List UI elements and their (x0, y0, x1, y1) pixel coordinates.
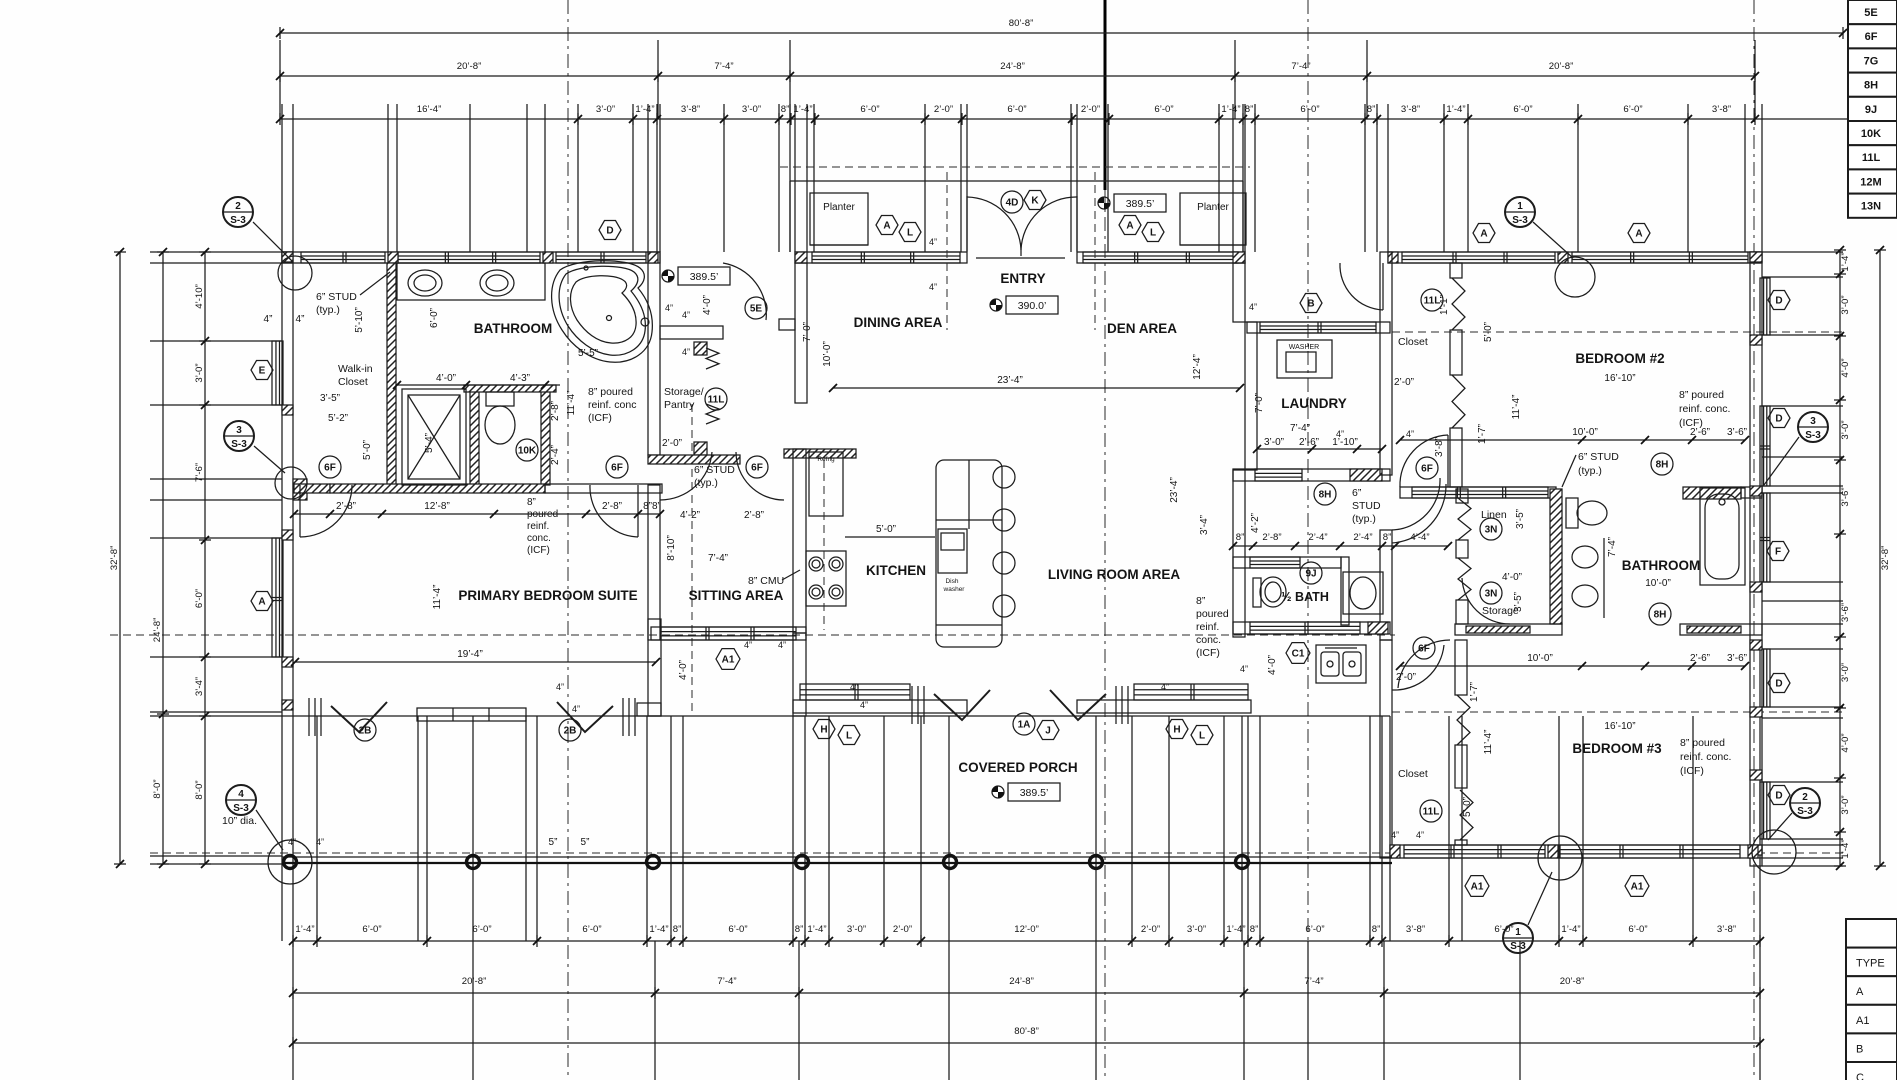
svg-text:SITTING AREA: SITTING AREA (689, 588, 784, 603)
island chairs (993, 466, 1015, 488)
svg-text:4”: 4” (556, 682, 564, 692)
door hall upper 6F (1392, 484, 1446, 543)
svg-text:12’-4”: 12’-4” (1192, 354, 1203, 380)
svg-text:5’-0”: 5’-0” (1462, 797, 1473, 817)
svg-text:4”: 4” (1240, 664, 1248, 674)
svg-text:6F: 6F (751, 463, 763, 474)
svg-text:conc.: conc. (1196, 634, 1221, 646)
right dimension column 32-8 (1879, 250, 1881, 866)
wall right exterior (1750, 252, 1762, 866)
svg-text:4’-2”: 4’-2” (1250, 513, 1261, 533)
door bedroom2 (1447, 435, 1449, 487)
svg-text:6’-0”: 6’-0” (1300, 104, 1319, 115)
svg-text:S-3: S-3 (230, 215, 246, 226)
kitchen counter dashed (823, 460, 825, 630)
svg-text:(ICF): (ICF) (1680, 765, 1704, 777)
wall bed3 south (1390, 845, 1762, 858)
half bath sink (1343, 572, 1383, 614)
door storage bifold (706, 348, 719, 369)
door bathroom2 (1462, 578, 1510, 624)
svg-text:6’-0”: 6’-0” (1305, 924, 1324, 935)
svg-text:12’-0”: 12’-0” (1014, 924, 1039, 935)
wall bath-left south (294, 484, 330, 493)
svg-text:BEDROOM #3: BEDROOM #3 (1572, 741, 1662, 756)
svg-text:8”: 8” (1236, 532, 1245, 543)
porch north edge line (293, 715, 1390, 717)
svg-text:A1: A1 (722, 655, 735, 666)
range (806, 551, 846, 606)
svg-text:20’-8”: 20’-8” (1560, 976, 1585, 987)
shear wall marks porch (308, 698, 310, 736)
svg-text:20’-8”: 20’-8” (1549, 61, 1574, 72)
wall laundry bottom (1233, 469, 1390, 481)
svg-text:H: H (1173, 725, 1180, 736)
svg-text:D: D (1775, 296, 1782, 307)
svg-text:4’-0”: 4’-0” (1840, 358, 1851, 377)
porch south edge (282, 856, 1392, 858)
svg-text:11’-4”: 11’-4” (1483, 730, 1494, 755)
svg-text:1’-4”: 1’-4” (807, 924, 826, 935)
svg-text:8H: 8H (1864, 80, 1878, 92)
svg-text:A: A (1856, 986, 1864, 998)
svg-text:3’-8”: 3’-8” (1712, 104, 1731, 115)
svg-text:reinf. conc.: reinf. conc. (1680, 751, 1731, 763)
bifold bed2 closet (1452, 278, 1465, 330)
svg-text:6’-0”: 6’-0” (194, 589, 205, 608)
svg-text:5’-0”: 5’-0” (1483, 322, 1494, 342)
svg-text:1’-7”: 1’-7” (1469, 682, 1480, 702)
svg-text:L: L (907, 228, 913, 239)
svg-text:3N: 3N (1485, 525, 1498, 536)
porch wall stub (417, 708, 526, 721)
wall bathroom2 south right (1680, 624, 1762, 635)
svg-text:Refrig: Refrig (817, 456, 835, 463)
svg-text:12M: 12M (1860, 176, 1881, 188)
planter boxes (810, 193, 868, 245)
elevation markers (990, 299, 1002, 311)
svg-text:6’-0”: 6’-0” (472, 924, 491, 935)
section cut thick line (1104, 0, 1107, 190)
svg-text:4’-0”: 4’-0” (678, 660, 689, 680)
door hall 6F arc (660, 452, 712, 500)
svg-text:7’-4”: 7’-4” (714, 61, 733, 72)
svg-text:D: D (1775, 414, 1782, 425)
svg-text:7’-4”: 7’-4” (1607, 537, 1618, 557)
svg-text:Planter: Planter (823, 202, 855, 213)
svg-text:8”: 8” (673, 924, 682, 935)
top dimension row 3 extension (1755, 118, 1880, 120)
svg-text:10’-0”: 10’-0” (822, 341, 833, 367)
svg-text:7’-0”: 7’-0” (1254, 393, 1265, 413)
wall bed2 closet east (1450, 263, 1462, 278)
horizontal margin lines right (1762, 251, 1843, 253)
svg-text:1’-4”: 1’-4” (1226, 924, 1245, 935)
horizontal dashed centerlines (150, 852, 1390, 854)
svg-text:E: E (259, 366, 266, 377)
svg-text:PRIMARY BEDROOM SUITE: PRIMARY BEDROOM SUITE (458, 588, 637, 603)
svg-text:16’-4”: 16’-4” (417, 104, 442, 115)
svg-text:4’-2”: 4’-2” (680, 510, 700, 521)
svg-text:4”: 4” (1336, 429, 1344, 439)
svg-text:BEDROOM #2: BEDROOM #2 (1575, 351, 1664, 366)
svg-text:5E: 5E (750, 304, 763, 315)
bathroom counter with two sinks (397, 263, 545, 300)
svg-text:6F: 6F (611, 463, 623, 474)
wall entry block top left segment (795, 252, 967, 263)
door bedroom3 (1392, 645, 1444, 690)
right dimension column details (1839, 250, 1841, 866)
svg-text:F: F (1775, 547, 1781, 558)
svg-text:D: D (1775, 791, 1782, 802)
svg-text:8”: 8” (795, 924, 804, 935)
svg-text:4”: 4” (929, 282, 937, 292)
svg-text:4”: 4” (860, 700, 868, 710)
svg-text:6’-0”: 6’-0” (362, 924, 381, 935)
svg-text:389.5’: 389.5’ (690, 271, 719, 283)
shower (402, 389, 466, 485)
svg-text:S-3: S-3 (233, 803, 249, 814)
svg-text:6’-0”: 6’-0” (728, 924, 747, 935)
svg-text:reinf.: reinf. (527, 521, 549, 532)
refrigerator (809, 452, 843, 516)
svg-text:3’-8”: 3’-8” (1717, 924, 1736, 935)
svg-text:6”: 6” (1352, 487, 1362, 499)
svg-text:5”: 5” (549, 837, 558, 848)
svg-text:Planter: Planter (1197, 202, 1229, 213)
svg-text:1: 1 (1515, 927, 1521, 938)
svg-text:3’-5”: 3’-5” (1515, 509, 1526, 529)
bottom dimension row 2 (293, 992, 1760, 994)
svg-text:8”: 8” (1383, 532, 1392, 543)
svg-text:10’-0”: 10’-0” (1527, 653, 1553, 664)
svg-text:10’-0”: 10’-0” (1645, 578, 1671, 589)
svg-text:11L: 11L (1862, 152, 1881, 164)
svg-text:6’-0”: 6’-0” (429, 308, 440, 328)
svg-text:2’-8”: 2’-8” (1262, 532, 1281, 543)
hall dim row (1233, 545, 1448, 547)
svg-text:A: A (883, 221, 890, 232)
svg-text:7’-4”: 7’-4” (1291, 61, 1310, 72)
wall dining west (795, 263, 807, 403)
svg-text:BATHROOM: BATHROOM (1622, 558, 1701, 573)
wall bathroom east / sitting west (648, 252, 660, 455)
svg-text:A1: A1 (1856, 1015, 1869, 1027)
svg-text:S-3: S-3 (1805, 430, 1821, 441)
marker hexagons (1024, 191, 1046, 210)
svg-text:12’-8”: 12’-8” (424, 501, 450, 512)
detail circles (278, 256, 312, 290)
grid extension lines vertical top margin (281, 104, 283, 252)
svg-text:BATHROOM: BATHROOM (474, 321, 553, 336)
svg-text:B: B (1307, 299, 1314, 310)
svg-text:(typ.): (typ.) (694, 477, 718, 489)
svg-text:8”: 8” (1245, 104, 1254, 115)
bifold bed3 closet (1457, 695, 1470, 745)
wall storage bottom (648, 455, 740, 464)
svg-text:8” CMU: 8” CMU (748, 575, 784, 587)
svg-text:3’-6”: 3’-6” (1840, 603, 1851, 622)
wall entry block top right segment (1077, 252, 1245, 263)
svg-text:(typ.): (typ.) (1352, 513, 1376, 525)
svg-text:5’-2”: 5’-2” (328, 413, 348, 424)
svg-text:11’-4”: 11’-4” (1511, 395, 1522, 420)
svg-text:2’-0”: 2’-0” (662, 438, 682, 449)
svg-text:4”: 4” (682, 310, 690, 320)
svg-text:3’-5”: 3’-5” (1513, 592, 1524, 612)
svg-text:L: L (846, 731, 852, 742)
svg-text:4”: 4” (850, 682, 858, 692)
svg-text:4”: 4” (682, 347, 690, 357)
svg-text:6F: 6F (324, 463, 336, 474)
svg-text:8”: 8” (1250, 924, 1259, 935)
grid long verticals (279, 40, 281, 119)
svg-text:S-3: S-3 (1797, 806, 1813, 817)
dishwasher (938, 529, 967, 573)
svg-text:8”: 8” (1196, 595, 1206, 607)
svg-text:7’-4”: 7’-4” (1290, 423, 1310, 434)
svg-text:16’-10”: 16’-10” (1604, 721, 1635, 732)
svg-text:9J: 9J (1305, 569, 1316, 580)
wall left wing top (282, 252, 660, 263)
svg-text:11L: 11L (1423, 807, 1440, 818)
svg-text:4”: 4” (744, 640, 752, 650)
corner tub (552, 261, 653, 362)
wall jog detail left (293, 479, 307, 500)
svg-text:8”: 8” (527, 497, 536, 508)
svg-text:24’-8”: 24’-8” (152, 618, 163, 643)
svg-text:24’-8”: 24’-8” (1000, 61, 1025, 72)
svg-text:8”: 8” (1372, 924, 1381, 935)
svg-text:3: 3 (236, 425, 242, 436)
svg-text:Closet: Closet (1398, 336, 1428, 348)
svg-text:13N: 13N (1861, 201, 1881, 213)
door hall lower 6F (1398, 640, 1450, 688)
svg-text:8”8”: 8”8” (643, 501, 661, 512)
svg-text:A: A (1635, 229, 1642, 240)
svg-text:LAUNDRY: LAUNDRY (1281, 396, 1347, 411)
svg-text:5”: 5” (581, 837, 590, 848)
svg-text:3’-0”: 3’-0” (742, 104, 761, 115)
svg-text:4”: 4” (1249, 302, 1257, 312)
svg-text:3’-8”: 3’-8” (681, 104, 700, 115)
svg-text:6’-0”: 6’-0” (582, 924, 601, 935)
svg-text:4’-0”: 4’-0” (702, 295, 713, 315)
svg-text:4’-10”: 4’-10” (194, 284, 205, 309)
svg-text:2’-6”: 2’-6” (1690, 653, 1710, 664)
svg-text:1’-4”: 1’-4” (1840, 839, 1851, 858)
svg-text:7’-6”: 7’-6” (194, 463, 205, 482)
svg-text:4’-0”: 4’-0” (1502, 572, 1522, 583)
wall laundry west (1245, 322, 1257, 470)
svg-text:2’-8”: 2’-8” (744, 510, 764, 521)
svg-text:8H: 8H (1656, 460, 1669, 471)
svg-text:8” poured: 8” poured (588, 386, 633, 398)
svg-text:2’-0”: 2’-0” (893, 924, 912, 935)
svg-text:11’-4”: 11’-4” (566, 391, 577, 416)
svg-text:10K: 10K (1861, 128, 1881, 140)
wall sitting south window band (651, 627, 806, 640)
left dimension column 24-8 / 8-0 (162, 252, 164, 864)
svg-text:9J: 9J (1865, 104, 1877, 116)
svg-text:1’-4”: 1’-4” (1221, 104, 1240, 115)
svg-text:C1: C1 (1292, 649, 1305, 660)
svg-text:8” poured: 8” poured (1680, 737, 1725, 749)
svg-text:2’-0”: 2’-0” (1141, 924, 1160, 935)
svg-text:32’-8”: 32’-8” (1880, 546, 1891, 571)
svg-text:3’-5”: 3’-5” (320, 393, 340, 404)
svg-text:(typ.): (typ.) (1578, 465, 1602, 477)
wall bedroom2 south (1400, 487, 1556, 498)
svg-text:Storage/: Storage/ (664, 386, 704, 398)
svg-text:(ICF): (ICF) (527, 545, 550, 556)
svg-text:8’-0”: 8’-0” (152, 779, 163, 798)
grid extension verticals bottom margin (281, 716, 283, 941)
svg-text:S-3: S-3 (1512, 215, 1528, 226)
svg-text:8’-10”: 8’-10” (666, 535, 677, 561)
svg-text:ENTRY: ENTRY (1000, 271, 1045, 286)
top dimension row 3 (280, 118, 1755, 120)
svg-text:4”: 4” (1391, 830, 1399, 840)
svg-text:1’-4”: 1’-4” (793, 104, 812, 115)
svg-text:4”: 4” (572, 704, 580, 714)
svg-text:1’-4”: 1’-4” (295, 924, 314, 935)
svg-text:4”: 4” (1161, 682, 1169, 692)
svg-text:1’-4”: 1’-4” (1840, 252, 1851, 271)
wall toilet room top (464, 385, 556, 392)
svg-text:6” STUD: 6” STUD (694, 464, 735, 476)
legend table bottom right (1846, 919, 1897, 948)
svg-text:COVERED PORCH: COVERED PORCH (958, 760, 1077, 775)
svg-text:5’-0”: 5’-0” (362, 440, 373, 460)
svg-text:2’-0”: 2’-0” (934, 104, 953, 115)
svg-text:A1: A1 (1631, 882, 1644, 893)
svg-text:3’-4”: 3’-4” (1199, 515, 1210, 535)
svg-text:1: 1 (1517, 201, 1523, 212)
svg-text:6F: 6F (1421, 464, 1433, 475)
entry stoop outline (790, 180, 1243, 182)
svg-text:D: D (606, 226, 613, 237)
svg-text:4’-0”: 4’-0” (1267, 655, 1278, 675)
vertical grid dashed centerlines (567, 0, 569, 1080)
svg-text:3’-0”: 3’-0” (596, 104, 615, 115)
svg-text:20’-8”: 20’-8” (457, 61, 482, 72)
svg-text:4”: 4” (264, 314, 273, 325)
wall den east (1233, 263, 1245, 322)
wall bedroom2 top (1388, 252, 1762, 263)
svg-text:8”: 8” (1367, 104, 1376, 115)
bottom dimension row 1 (293, 940, 1760, 942)
svg-text:4’-0”: 4’-0” (1840, 733, 1851, 752)
svg-text:A: A (1480, 229, 1487, 240)
svg-text:D: D (1775, 679, 1782, 690)
svg-text:7’-0”: 7’-0” (802, 322, 813, 342)
svg-text:4”: 4” (778, 640, 786, 650)
porch columns (284, 856, 297, 869)
svg-text:80’-8”: 80’-8” (1009, 18, 1034, 29)
svg-text:4”: 4” (296, 314, 305, 325)
marker circles (354, 719, 376, 741)
svg-text:TYPE: TYPE (1856, 958, 1885, 970)
svg-text:7G: 7G (1864, 55, 1879, 67)
svg-text:3’-0”: 3’-0” (1264, 437, 1284, 448)
svg-text:2B: 2B (359, 726, 372, 737)
svg-text:3’-0”: 3’-0” (194, 363, 205, 382)
svg-text:C: C (1856, 1072, 1864, 1080)
svg-text:conc.: conc. (527, 533, 551, 544)
suite SE corner wall (648, 619, 661, 716)
svg-text:A: A (258, 597, 265, 608)
svg-text:6’-0”: 6’-0” (1628, 924, 1647, 935)
wall vestibule (660, 326, 723, 339)
svg-text:4’-3”: 4’-3” (510, 373, 530, 384)
svg-text:3’-6”: 3’-6” (1840, 487, 1851, 506)
svg-text:L: L (1199, 731, 1205, 742)
wall kitchen top (784, 449, 856, 458)
svg-text:4”: 4” (665, 303, 673, 313)
svg-text:4”: 4” (316, 837, 324, 847)
svg-text:B: B (1856, 1043, 1863, 1055)
svg-text:7’-4”: 7’-4” (1304, 976, 1323, 987)
wall half bath top (1233, 557, 1341, 568)
svg-text:5’-5”: 5’-5” (578, 348, 598, 359)
half bath toilet (1253, 578, 1261, 607)
svg-text:Closet: Closet (338, 376, 368, 388)
svg-text:19’-4”: 19’-4” (457, 649, 483, 660)
svg-text:STUD: STUD (1352, 500, 1381, 512)
svg-text:3’-0”: 3’-0” (1840, 795, 1851, 814)
wall bed3 closet east (1455, 640, 1467, 695)
wall linen column west (1456, 489, 1468, 503)
svg-text:3’-0”: 3’-0” (1840, 420, 1851, 439)
svg-text:5’-4”: 5’-4” (424, 433, 435, 453)
svg-text:2’-6”: 2’-6” (1690, 427, 1710, 438)
left dimension column 32-8 (119, 252, 121, 864)
svg-text:WASHER: WASHER (1289, 344, 1319, 351)
svg-text:6” STUD: 6” STUD (316, 291, 357, 303)
svg-text:23’-4”: 23’-4” (997, 375, 1023, 386)
svg-text:16’-10”: 16’-10” (1604, 373, 1635, 384)
svg-text:DEN AREA: DEN AREA (1107, 321, 1177, 336)
svg-text:1’-1”: 1’-1” (1439, 295, 1450, 315)
svg-text:390.0’: 390.0’ (1018, 300, 1047, 312)
svg-text:reinf. conc.: reinf. conc. (1679, 403, 1730, 415)
svg-text:6F: 6F (1865, 31, 1878, 43)
svg-text:8’-0”: 8’-0” (194, 780, 205, 799)
bathroom2 tub (1700, 488, 1745, 585)
svg-text:32’-8”: 32’-8” (109, 546, 120, 571)
left dimension column details (204, 252, 206, 864)
svg-text:1’-4”: 1’-4” (649, 924, 668, 935)
svg-text:2: 2 (235, 201, 241, 212)
bathroom2 toilet (1566, 498, 1578, 528)
svg-text:4D: 4D (1006, 198, 1019, 209)
svg-text:2’-0”: 2’-0” (1081, 104, 1100, 115)
top dimension row 1 : 80-8 (280, 32, 1843, 34)
svg-text:3’-8”: 3’-8” (1406, 924, 1425, 935)
door sitting 6F arc (736, 452, 784, 500)
svg-text:2’-8”: 2’-8” (550, 401, 561, 421)
svg-text:A: A (1126, 221, 1133, 232)
svg-text:Pantry: Pantry (664, 399, 695, 411)
bar sink C1 (1316, 645, 1366, 683)
wall closet/bathroom divider (387, 263, 396, 485)
svg-text:5’-0”: 5’-0” (876, 524, 896, 535)
svg-text:4”: 4” (929, 237, 937, 247)
svg-text:3’-6”: 3’-6” (1727, 427, 1747, 438)
svg-text:3’-0”: 3’-0” (1840, 295, 1851, 314)
svg-text:1A: 1A (1018, 720, 1031, 731)
svg-text:389.5’: 389.5’ (1126, 198, 1155, 210)
